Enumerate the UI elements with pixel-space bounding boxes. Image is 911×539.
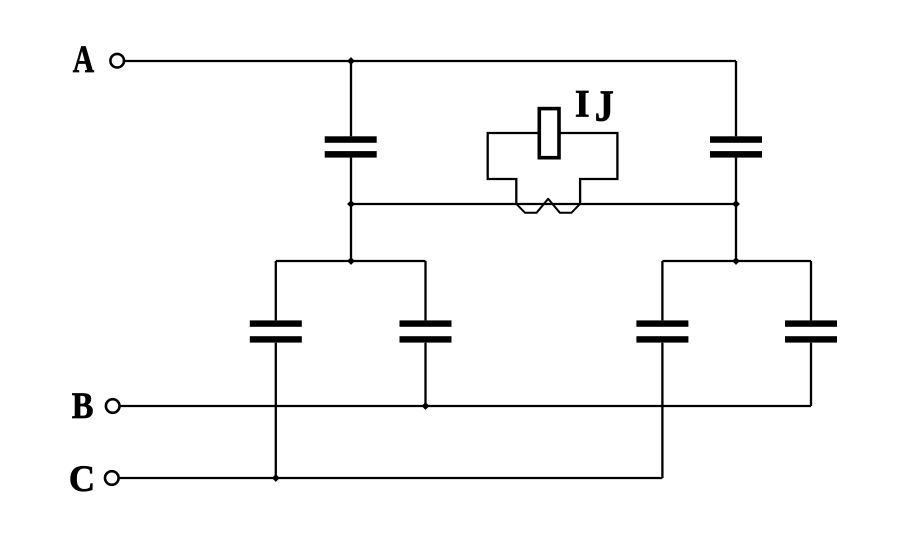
svg-text:J: J	[595, 81, 614, 130]
svg-text:B: B	[72, 385, 94, 426]
svg-text:A: A	[73, 38, 94, 81]
svg-text:I: I	[575, 82, 590, 126]
svg-text:C: C	[69, 458, 95, 499]
